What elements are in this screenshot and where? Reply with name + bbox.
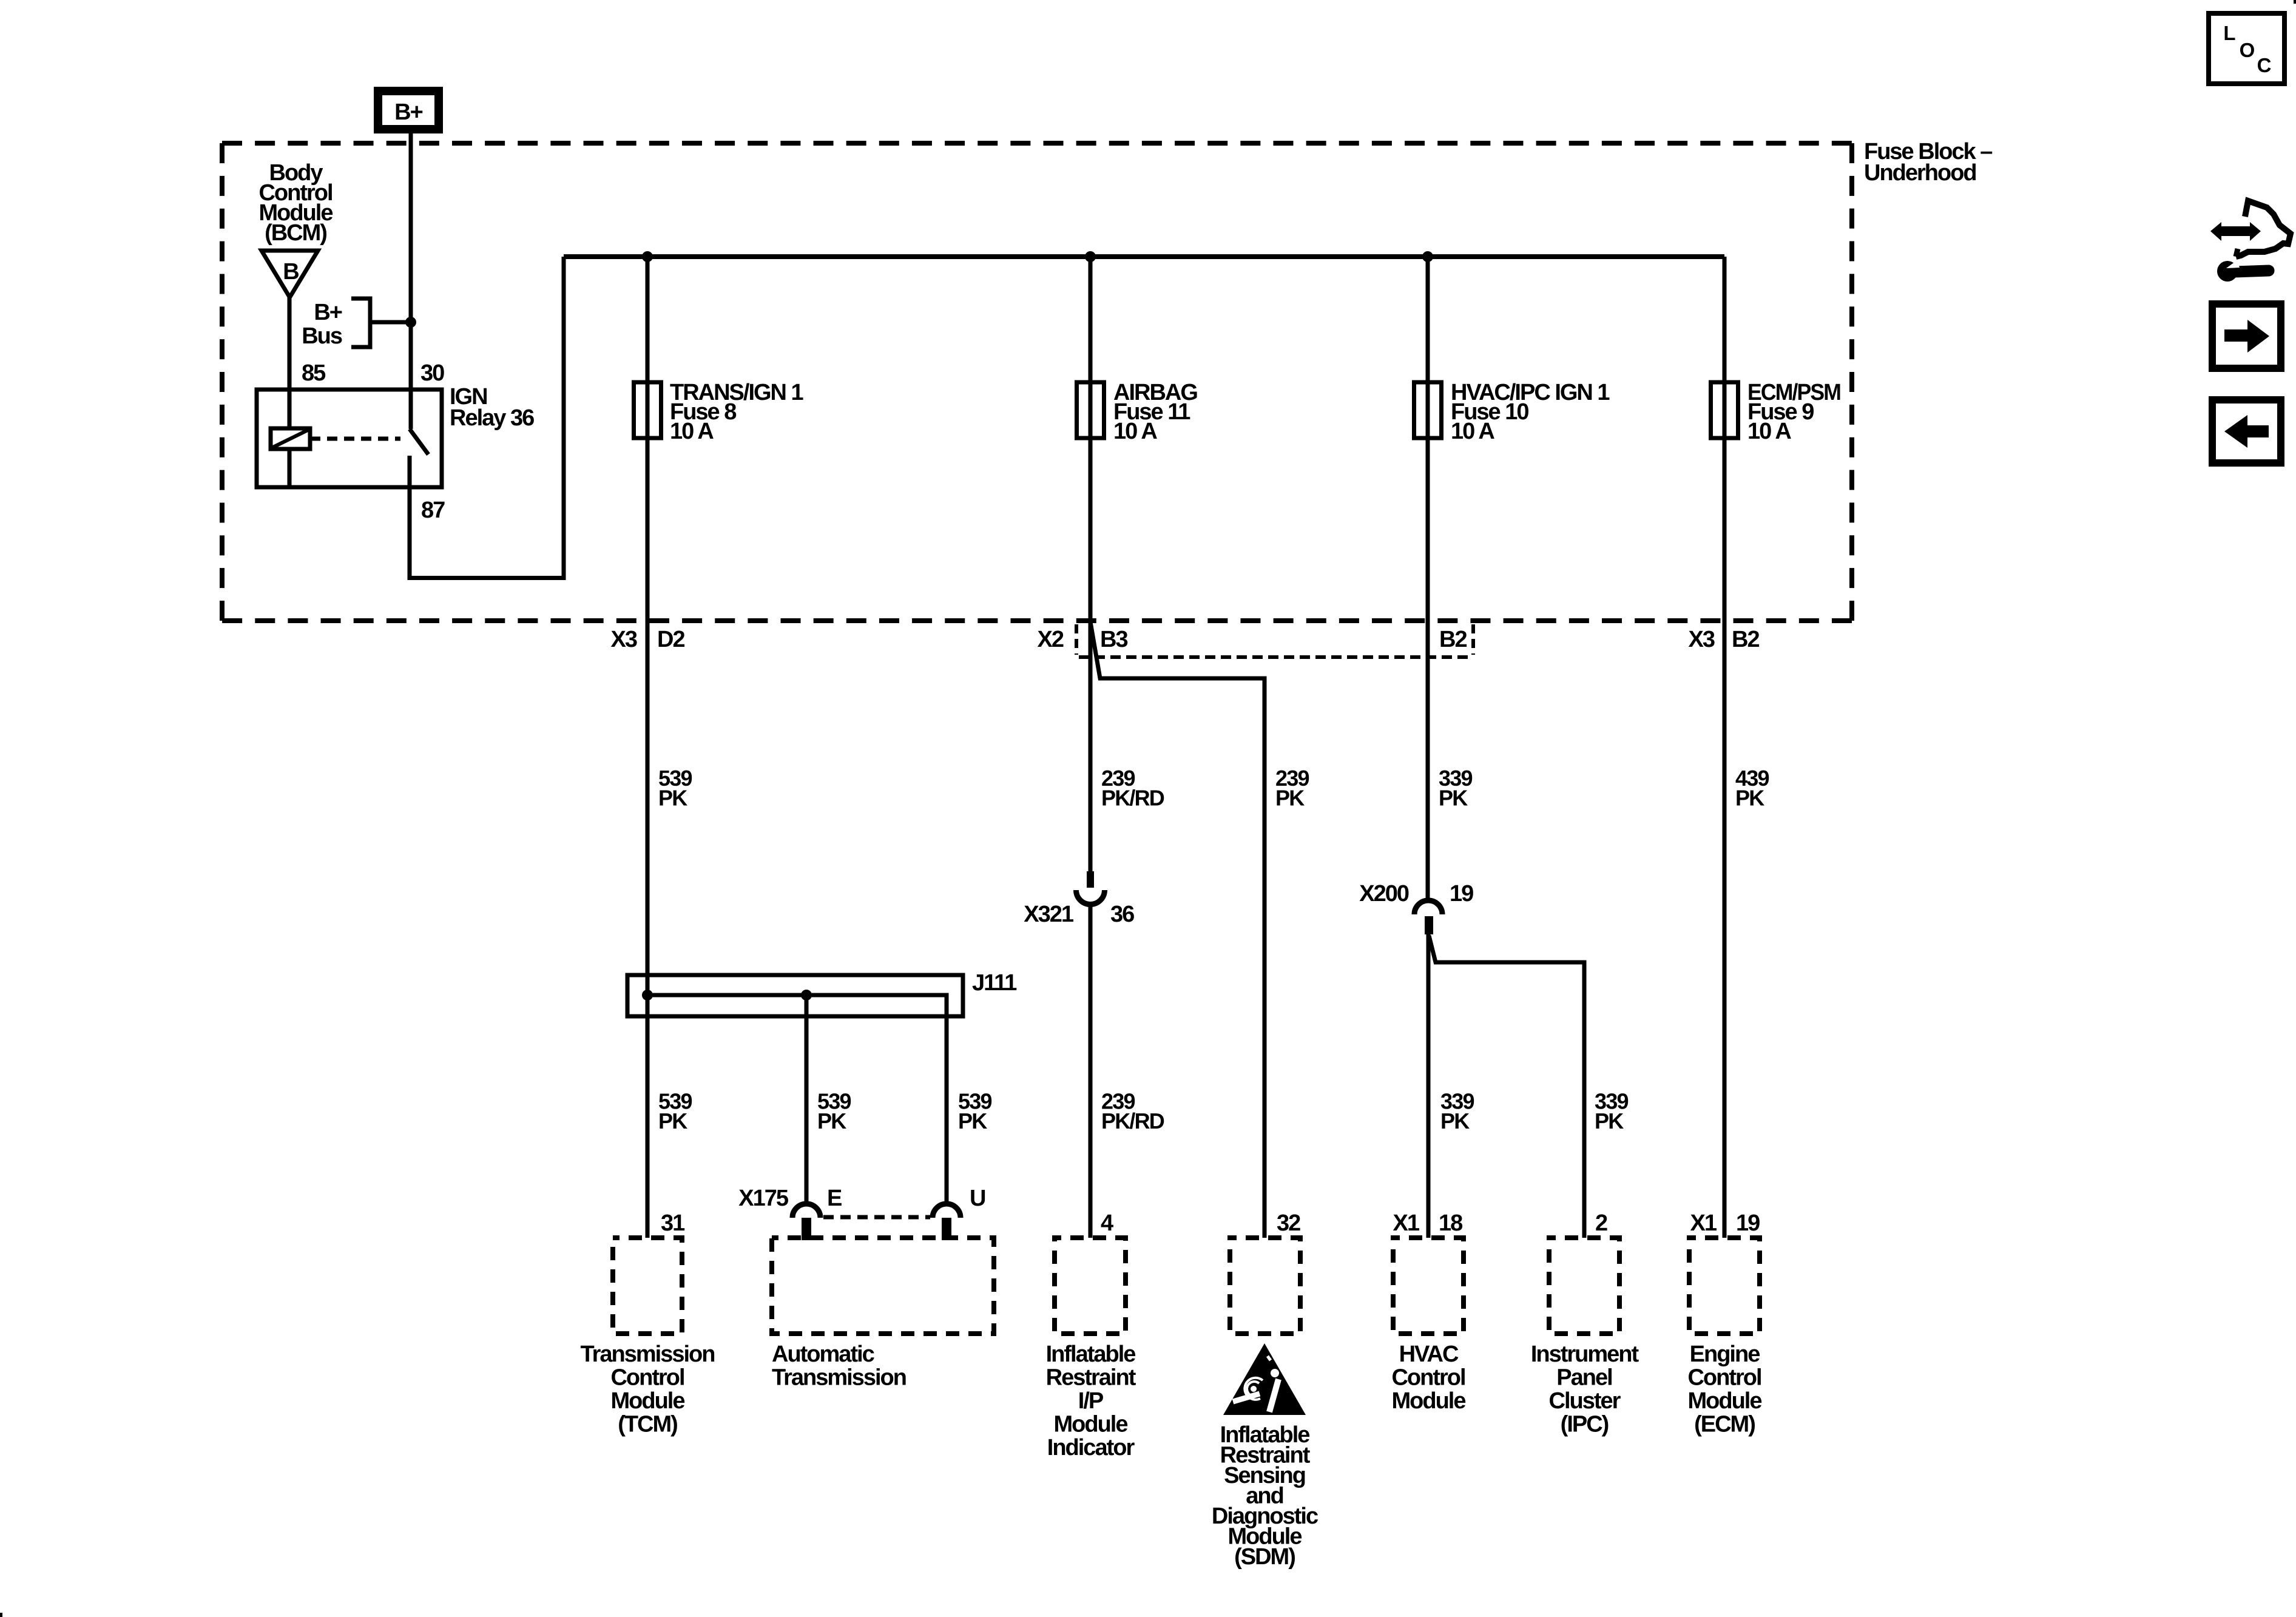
- svg-text:4: 4: [1101, 1210, 1113, 1236]
- svg-text:Instrument: Instrument: [1531, 1342, 1639, 1367]
- svg-text:10 A: 10 A: [1113, 419, 1157, 444]
- svg-text:Transmission: Transmission: [581, 1342, 715, 1367]
- svg-text:(ECM): (ECM): [1694, 1412, 1755, 1437]
- svg-text:Indicator: Indicator: [1047, 1435, 1135, 1460]
- svg-text:PK: PK: [658, 786, 687, 811]
- svg-text:PK/RD: PK/RD: [1101, 786, 1164, 811]
- svg-text:PK: PK: [1439, 786, 1468, 811]
- svg-text:B2: B2: [1439, 627, 1467, 652]
- svg-text:PK: PK: [817, 1109, 846, 1133]
- svg-text:PK: PK: [1440, 1109, 1470, 1133]
- svg-text:Module: Module: [1054, 1412, 1128, 1437]
- svg-text:31: 31: [661, 1210, 685, 1236]
- svg-text:Panel: Panel: [1556, 1365, 1612, 1391]
- svg-text:U: U: [970, 1186, 985, 1211]
- svg-text:87: 87: [421, 498, 445, 523]
- svg-text:Control: Control: [1687, 1365, 1761, 1391]
- svg-text:19: 19: [1736, 1210, 1760, 1236]
- svg-text:PK: PK: [958, 1109, 987, 1133]
- svg-text:36: 36: [1110, 902, 1134, 927]
- svg-text:30: 30: [420, 360, 444, 386]
- svg-text:B+: B+: [314, 300, 342, 325]
- svg-text:(TCM): (TCM): [618, 1412, 677, 1437]
- svg-text:PK: PK: [1735, 786, 1764, 811]
- svg-text:(BCM): (BCM): [265, 220, 326, 246]
- svg-text:10 A: 10 A: [1451, 419, 1494, 444]
- svg-text:Module: Module: [1688, 1388, 1762, 1414]
- svg-text:Control: Control: [1391, 1365, 1465, 1391]
- svg-text:10 A: 10 A: [1747, 419, 1791, 444]
- svg-text:X1: X1: [1393, 1210, 1420, 1236]
- svg-text:B: B: [283, 259, 299, 285]
- svg-text:18: 18: [1439, 1210, 1462, 1236]
- svg-text:B+: B+: [394, 100, 422, 125]
- svg-text:PK: PK: [1275, 786, 1305, 811]
- svg-text:D2: D2: [657, 627, 684, 652]
- svg-text:Control: Control: [610, 1365, 684, 1391]
- svg-text:X2: X2: [1038, 627, 1064, 652]
- svg-text:Cluster: Cluster: [1549, 1388, 1621, 1414]
- svg-text:Transmission: Transmission: [772, 1365, 906, 1391]
- svg-text:Underhood: Underhood: [1864, 160, 1976, 186]
- svg-text:X3: X3: [611, 627, 637, 652]
- svg-text:E: E: [827, 1186, 842, 1211]
- svg-text:O: O: [2240, 39, 2255, 61]
- svg-text:32: 32: [1277, 1210, 1300, 1236]
- svg-text:Module: Module: [611, 1388, 685, 1414]
- svg-text:C: C: [2257, 54, 2271, 76]
- svg-text:B3: B3: [1100, 627, 1127, 652]
- svg-text:10 A: 10 A: [670, 419, 714, 444]
- svg-text:X3: X3: [1689, 627, 1715, 652]
- svg-text:19: 19: [1450, 881, 1473, 906]
- svg-text:Module: Module: [1392, 1388, 1466, 1414]
- svg-text:B2: B2: [1732, 627, 1759, 652]
- svg-text:PK/RD: PK/RD: [1101, 1109, 1164, 1133]
- svg-text:PK: PK: [658, 1109, 687, 1133]
- svg-text:X1: X1: [1690, 1210, 1717, 1236]
- svg-text:HVAC: HVAC: [1399, 1342, 1459, 1367]
- svg-text:(IPC): (IPC): [1561, 1412, 1609, 1437]
- svg-text:Bus: Bus: [302, 323, 342, 349]
- svg-text:Engine: Engine: [1690, 1342, 1760, 1367]
- svg-text:X321: X321: [1024, 902, 1074, 927]
- svg-text:L: L: [2223, 22, 2235, 44]
- svg-text:2: 2: [1595, 1210, 1607, 1236]
- svg-text:Automatic: Automatic: [772, 1342, 875, 1367]
- svg-text:Relay 36: Relay 36: [450, 405, 534, 431]
- svg-text:85: 85: [302, 360, 326, 386]
- svg-text:X175: X175: [738, 1186, 789, 1211]
- svg-text:Inflatable: Inflatable: [1046, 1342, 1136, 1367]
- svg-text:PK: PK: [1595, 1109, 1624, 1133]
- svg-text:Restraint: Restraint: [1046, 1365, 1136, 1391]
- svg-text:(SDM): (SDM): [1234, 1544, 1295, 1570]
- svg-text:J111: J111: [972, 970, 1017, 996]
- svg-text:X200: X200: [1359, 881, 1409, 906]
- svg-text:I/P: I/P: [1078, 1388, 1104, 1414]
